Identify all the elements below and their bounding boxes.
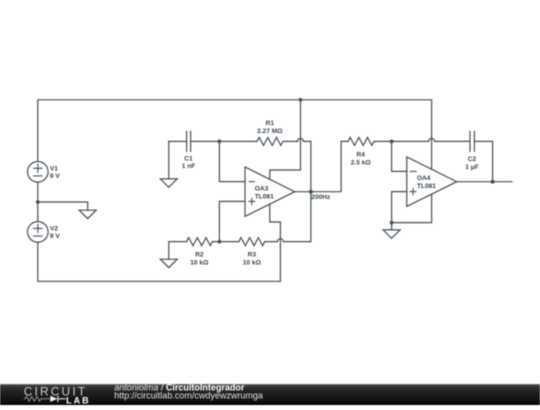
- wire mid junction to ground stem: [38, 202, 88, 210]
- wire OA3 output to R4: [295, 141, 348, 191]
- wire ground to C1 left plate: [169, 140, 187, 142]
- logo diode: [50, 396, 57, 402]
- op-amp OA4 plus sign: [410, 189, 416, 195]
- wire OA4 V- pin to ground node: [392, 194, 432, 222]
- voltage source V1 circle: [28, 162, 49, 183]
- svg-text:TL081: TL081: [417, 183, 436, 190]
- svg-text:http://circuitlab.com/cwdyewzw: http://circuitlab.com/cwdyewzwrumga: [114, 391, 263, 401]
- wire V1 bottom to V2 top: [37, 182, 39, 221]
- ground stem at R2: [168, 242, 170, 260]
- resistor R2: [187, 238, 213, 246]
- wire OA3 V+ supply from top rail: [270, 100, 301, 180]
- svg-text:9 V: 9 V: [50, 173, 60, 180]
- wire R2 to R3: [213, 241, 239, 243]
- node dot at OA3 output: [309, 190, 313, 194]
- svg-text:C2: C2: [468, 156, 477, 163]
- svg-text:1 μF: 1 μF: [465, 164, 479, 171]
- node dot at R4 right: [390, 140, 394, 144]
- svg-text:C1: C1: [184, 155, 193, 162]
- wire OA4 noninverting input down to ground node: [392, 192, 407, 223]
- wire C1 right plate to node: [191, 140, 220, 142]
- wire C2 right plate down to output node: [474, 141, 492, 181]
- svg-text:OA3: OA3: [255, 186, 269, 193]
- svg-text:200Hz: 200Hz: [311, 194, 331, 201]
- wire V2 bottom along bottom rail to OA3 V- pin: [38, 204, 281, 281]
- wire OA4 output: [457, 181, 512, 183]
- node dot between V1 and V2: [36, 200, 40, 204]
- ground stem at OA4: [391, 223, 393, 230]
- svg-text:1 nF: 1 nF: [182, 163, 196, 170]
- logo resistor zigzag: [24, 396, 50, 401]
- wire R3 right with hop to OA3 output node: [265, 192, 311, 242]
- ground stem at C1: [168, 141, 170, 179]
- wire node to OA3 inverting input: [219, 141, 245, 181]
- voltage source V2 circle: [28, 222, 49, 243]
- voltage source V1 minus sign: [34, 175, 42, 177]
- node dot between R2 and R3: [218, 240, 222, 244]
- wire ground to R2 left: [169, 241, 187, 243]
- op-amp OA4 minus sign: [410, 170, 416, 172]
- node dot at OA4 ground: [390, 221, 394, 225]
- svg-text:9 V: 9 V: [50, 233, 60, 240]
- svg-text:LAB: LAB: [66, 395, 91, 405]
- node dot at C1 output: [218, 140, 222, 144]
- svg-text:TL081: TL081: [255, 193, 274, 200]
- voltage source V2 minus sign: [34, 235, 42, 237]
- op-amp OA3 minus sign: [249, 181, 254, 183]
- node dot top rail: [299, 98, 303, 102]
- op-amp OA3 triangle: [245, 167, 295, 216]
- logo diode bar and wire: [58, 396, 66, 402]
- wire R4 right with hop to C2 left plate: [374, 138, 470, 141]
- svg-text:OA4: OA4: [417, 175, 431, 182]
- svg-text:V1: V1: [50, 165, 58, 172]
- voltage source V2 plus sign: [34, 224, 42, 232]
- resistor R4: [348, 137, 374, 145]
- op-amp OA3 plus sign: [249, 198, 255, 204]
- svg-text:10 kΩ: 10 kΩ: [243, 259, 262, 266]
- wire node to R1 left: [219, 140, 257, 142]
- resistor R1: [257, 137, 283, 145]
- svg-text:R3: R3: [248, 252, 257, 259]
- svg-text:R4: R4: [356, 152, 365, 159]
- wire OA3 noninverting input down to R2/R3 node: [219, 201, 245, 241]
- svg-text:R2: R2: [195, 252, 204, 259]
- wire R4 node to OA4 inverting input: [392, 141, 407, 171]
- node dot at OA4 output: [491, 180, 495, 184]
- ground at R2 left: [160, 259, 177, 267]
- svg-text:2.5 kΩ: 2.5 kΩ: [351, 159, 372, 166]
- voltage source V1 plus sign: [34, 164, 42, 172]
- capacitor C2: [470, 132, 474, 152]
- ground under V1/V2 junction: [79, 210, 96, 218]
- svg-text:2.27 MΩ: 2.27 MΩ: [257, 128, 283, 135]
- op-amp OA4 triangle: [407, 157, 457, 206]
- wire top rail from V1 to OA4 V+ pin: [38, 100, 432, 170]
- svg-text:R1: R1: [266, 120, 275, 127]
- footer bar: [0, 384, 540, 405]
- resistor R3: [239, 238, 265, 246]
- capacitor C1: [187, 132, 191, 152]
- wire R1 right with hop to feedback down: [283, 138, 311, 191]
- ground at OA4: [383, 230, 400, 238]
- svg-text:V2: V2: [50, 225, 58, 232]
- ground at C1: [160, 179, 177, 187]
- svg-text:10 kΩ: 10 kΩ: [190, 259, 209, 266]
